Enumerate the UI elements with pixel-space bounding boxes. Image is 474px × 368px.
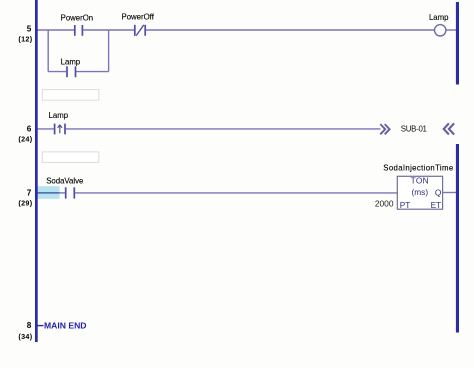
svg-text:(34): (34) <box>18 332 32 341</box>
svg-text:(12): (12) <box>18 35 32 44</box>
svg-text:5: 5 <box>27 25 32 34</box>
svg-text:8: 8 <box>27 321 32 330</box>
svg-text:Q: Q <box>435 188 442 198</box>
svg-text:Lamp: Lamp <box>429 13 449 22</box>
svg-text:Lamp: Lamp <box>49 111 69 120</box>
svg-text:SUB-01: SUB-01 <box>401 124 427 133</box>
svg-text:PowerOff: PowerOff <box>122 13 155 22</box>
svg-text:(29): (29) <box>18 199 32 208</box>
svg-text:2000: 2000 <box>375 199 394 209</box>
svg-text:PT: PT <box>400 200 411 210</box>
svg-text:Lamp: Lamp <box>61 58 81 67</box>
svg-text:7: 7 <box>27 188 32 197</box>
svg-text:(24): (24) <box>18 135 32 144</box>
svg-text:TON: TON <box>411 175 429 185</box>
svg-text:SodaInjectionTime: SodaInjectionTime <box>383 163 453 172</box>
svg-text:MAIN END: MAIN END <box>44 320 87 330</box>
svg-text:ET: ET <box>431 200 442 210</box>
svg-text:PowerOn: PowerOn <box>61 14 94 23</box>
svg-text:6: 6 <box>27 124 32 133</box>
svg-text:(ms): (ms) <box>412 187 429 197</box>
svg-text:SodaValve: SodaValve <box>46 176 83 185</box>
